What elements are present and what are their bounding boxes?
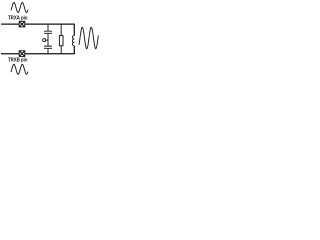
svg-text:TRXA pin: TRXA pin	[8, 16, 28, 22]
svg-text:TRXB pin: TRXB pin	[8, 57, 28, 63]
